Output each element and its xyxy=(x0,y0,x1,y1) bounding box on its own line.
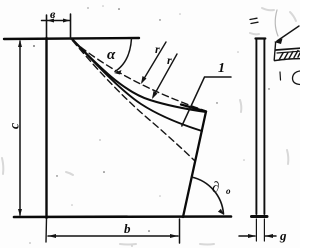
blank bottom edge xyxy=(14,215,231,218)
dimension line в xyxy=(42,20,71,22)
alpha arc xyxy=(115,39,132,72)
dimension line b xyxy=(48,235,178,237)
hatched patch bottom curve xyxy=(275,59,301,61)
dashed face line upper xyxy=(73,41,207,112)
solid face curve A xyxy=(72,39,206,112)
blank top edge xyxy=(4,38,139,39)
strip left edge xyxy=(255,39,257,215)
top right leader arrow xyxy=(277,26,299,41)
partial glyph at right edge xyxy=(293,71,301,85)
apex extension line xyxy=(70,14,72,39)
scan speckles xyxy=(33,8,270,232)
hatched patch mid squiggle xyxy=(277,51,300,53)
tooth front edge xyxy=(183,112,206,218)
dashed face line lower xyxy=(73,41,196,162)
svg-text:α: α xyxy=(107,47,116,63)
r1 arrow xyxy=(142,42,166,82)
strip extension lines xyxy=(255,219,257,241)
svg-text:c: c xyxy=(8,122,23,129)
solid face curve B xyxy=(72,39,202,131)
hatched patch top curve xyxy=(276,48,300,50)
blank left edge xyxy=(46,15,48,38)
strip right edge xyxy=(263,39,265,215)
faint pencil squiggle xyxy=(275,10,278,36)
svg-text:1: 1 xyxy=(218,61,225,76)
dimension line g xyxy=(239,235,255,237)
strip top cap xyxy=(256,37,266,39)
small tick mark xyxy=(279,72,282,80)
delta0 arc xyxy=(192,177,224,214)
leader 1 bar xyxy=(182,77,231,126)
svg-text:o: o xyxy=(226,186,231,196)
svg-text:в: в xyxy=(50,7,56,21)
svg-text:r: r xyxy=(167,53,172,67)
tooth top edge xyxy=(181,105,206,112)
svg-text:r: r xyxy=(155,42,160,56)
svg-text:b: b xyxy=(124,221,131,236)
svg-text:g: g xyxy=(279,228,287,243)
dimension line c xyxy=(19,41,21,215)
hatch strokes xyxy=(274,43,300,61)
svg-text:∂: ∂ xyxy=(212,180,219,196)
b right extension line xyxy=(179,219,181,243)
strip bottom bar xyxy=(252,215,268,218)
approx mark xyxy=(250,18,258,23)
r2 arrow xyxy=(153,54,177,97)
